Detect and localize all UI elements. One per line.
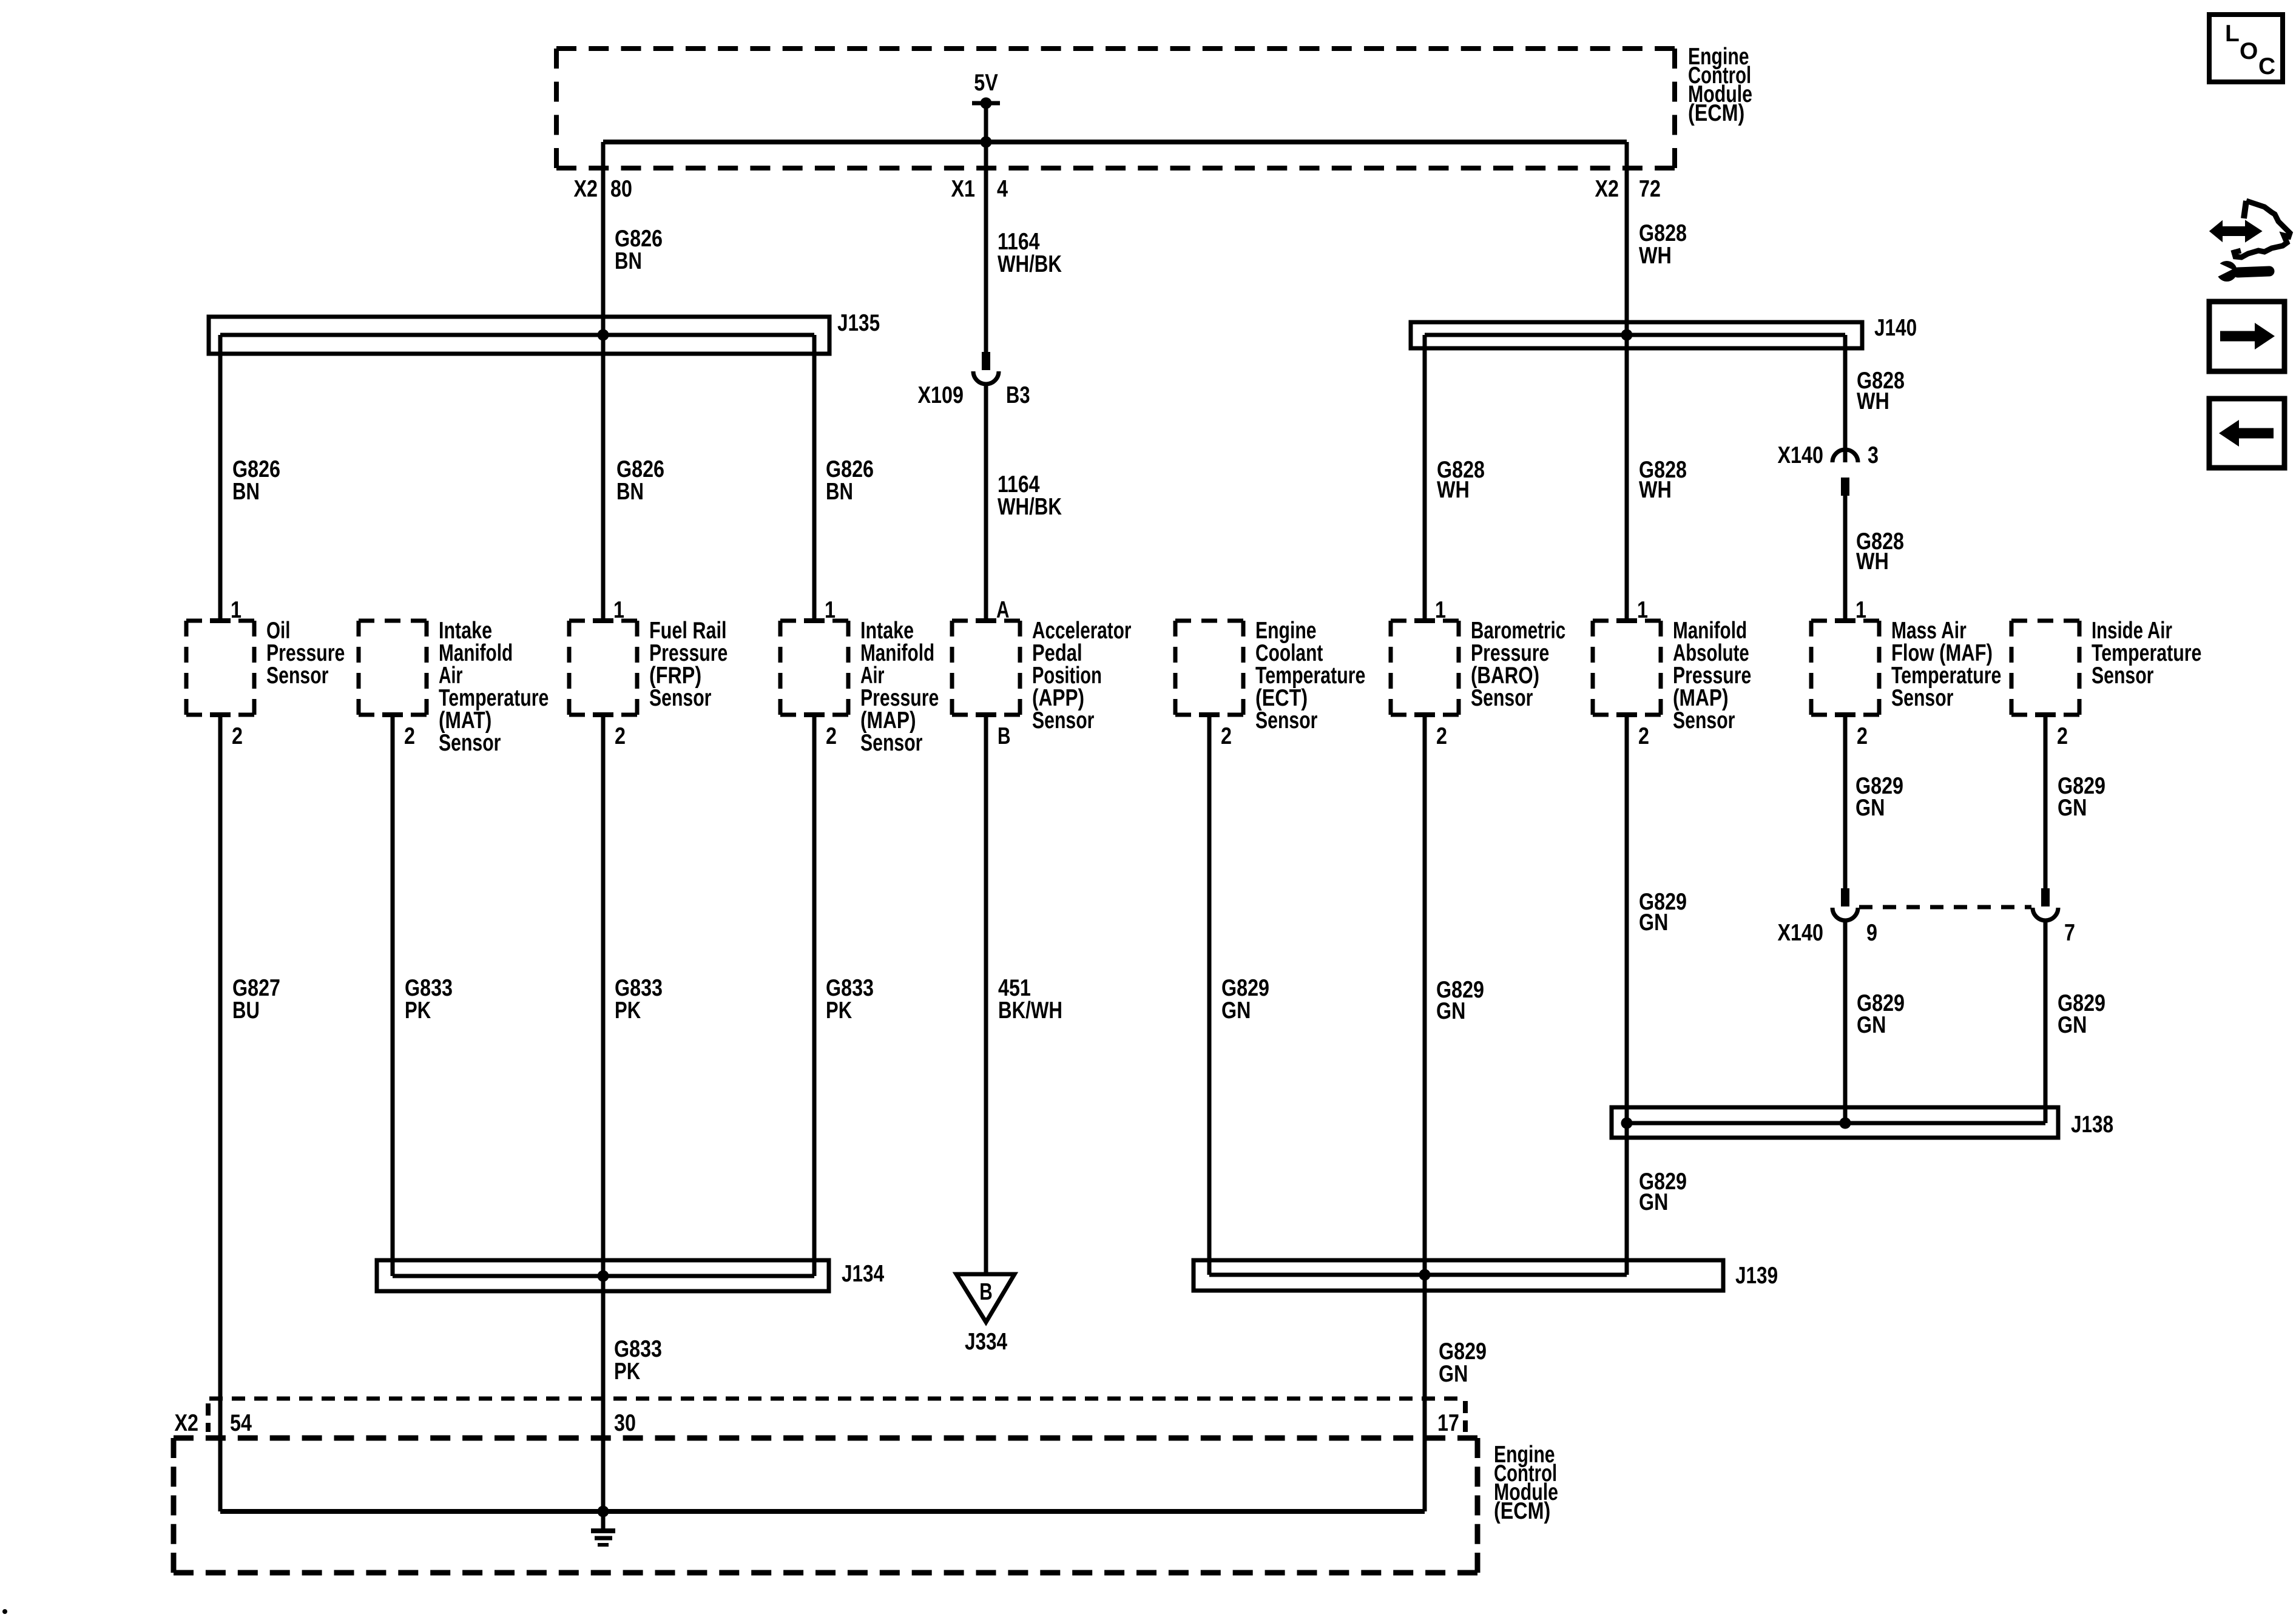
wire: G826 BN from J135 to FRP sensor pin 1 <box>601 335 606 621</box>
wire: G828 WH from J140 to BARO sensor pin 1 <box>1423 335 1427 621</box>
svg-text:Sensor: Sensor <box>649 685 711 711</box>
wire: G829 GN from X140-7 to J138 right end <box>2044 920 2048 1123</box>
svg-text:Sensor: Sensor <box>1255 707 1317 734</box>
wire: G829 GN from inside air temperature sensor pin 2 to X140 pin 7 <box>2044 715 2048 888</box>
svg-text:1: 1 <box>231 597 241 623</box>
module box: Engine Control Module ECM (bottom, dashed) <box>174 1436 1477 1441</box>
node: junction on J139 (BARO through wire) <box>1419 1269 1431 1281</box>
wire: G826 BN from ECM X2-80 to J135 <box>601 142 606 335</box>
wire: G833 PK from intake MAP sensor pin 2 to J134 <box>812 715 817 1276</box>
svg-text:BK/WH: BK/WH <box>998 998 1062 1024</box>
splice junction block J140 <box>1411 315 1917 348</box>
svg-text:9: 9 <box>1866 920 1877 946</box>
svg-text:A: A <box>996 597 1010 623</box>
label: Engine Control Module (ECM) top <box>1688 44 1752 126</box>
svg-text:1: 1 <box>1637 597 1648 623</box>
svg-text:Sensor: Sensor <box>1471 685 1533 711</box>
svg-text:(ECM): (ECM) <box>1688 100 1744 126</box>
svg-text:Sensor: Sensor <box>439 730 501 756</box>
wire: G829 GN from X140-9 to J138 <box>1843 920 1848 1123</box>
sensor: manifold absolute pressure MAP sensor (dashed box) <box>1593 597 1751 749</box>
svg-text:2: 2 <box>1857 723 1868 749</box>
splice junction block J135 <box>209 310 880 354</box>
svg-text:WH/BK: WH/BK <box>998 251 1062 277</box>
svg-text:WH: WH <box>1639 477 1672 503</box>
svg-text:GN: GN <box>1855 795 1885 821</box>
svg-text:B: B <box>998 723 1011 749</box>
node: junction on J138 (MAF wire) <box>1840 1118 1851 1129</box>
svg-text:GN: GN <box>1439 1361 1468 1387</box>
svg-text:Sensor: Sensor <box>2092 663 2153 689</box>
connector face line: ECM X2 (fine dashed) <box>209 1397 1465 1401</box>
pin label: ECM X2 pin 54 <box>175 1410 252 1436</box>
ground symbol: chassis ground below pin 30 <box>591 1511 615 1545</box>
node: G826 junction on J135 <box>598 329 609 341</box>
svg-text:2: 2 <box>1436 723 1447 749</box>
wire: G826 BN from J135 to intake manifold air pressure sensor pin 1 <box>812 335 817 621</box>
svg-text:WH: WH <box>1437 477 1470 503</box>
svg-text:B3: B3 <box>1006 382 1030 408</box>
svg-text:PK: PK <box>826 998 852 1024</box>
svg-text:2: 2 <box>826 723 837 749</box>
svg-text:WH: WH <box>1857 388 1889 414</box>
svg-text:BN: BN <box>232 479 260 505</box>
inline connector X140 terminal 9 <box>1778 888 1878 946</box>
svg-text:X2: X2 <box>175 1410 199 1436</box>
svg-text:O: O <box>2240 38 2258 64</box>
svg-text:GN: GN <box>2058 795 2087 821</box>
svg-text:WH/BK: WH/BK <box>998 494 1062 520</box>
svg-text:2: 2 <box>615 723 626 749</box>
svg-text:1: 1 <box>825 597 836 623</box>
svg-text:GN: GN <box>1857 1012 1886 1038</box>
inline connector X109 terminal B3 <box>918 352 1030 408</box>
connector tick right of pin 17 <box>1463 1401 1468 1432</box>
svg-text:PK: PK <box>405 998 431 1024</box>
svg-text:(ECM): (ECM) <box>1494 1498 1550 1524</box>
wire: G828 WH from X140-3 to MAF temperature sensor pin 1 <box>1843 494 1848 621</box>
sensor: fuel rail pressure FRP sensor (dashed box) <box>569 597 728 749</box>
svg-text:80: 80 <box>610 176 632 202</box>
wire: G828 WH from ECM X2-72 to J140 <box>1625 142 1629 335</box>
stray scan mark bottom left <box>2 1609 7 1614</box>
svg-text:54: 54 <box>230 1410 252 1436</box>
svg-text:PK: PK <box>615 998 641 1024</box>
svg-text:J138: J138 <box>2071 1112 2113 1138</box>
svg-text:GN: GN <box>1639 910 1668 936</box>
wire: 1164 WH/BK from ECM X1-4 down to X109 <box>984 142 988 352</box>
sensor: mass air flow MAF temperature sensor (dashed box) <box>1811 597 2001 749</box>
wire: 5V reference bus inside ECM <box>603 140 1627 144</box>
svg-text:J139: J139 <box>1735 1263 1778 1289</box>
svg-text:2: 2 <box>2057 723 2068 749</box>
svg-text:Sensor: Sensor <box>860 730 922 756</box>
icon: LOC reference box <box>2209 15 2283 82</box>
inline connector X140 terminal 7 <box>2033 888 2075 946</box>
svg-text:B: B <box>979 1279 993 1305</box>
svg-text:1: 1 <box>1855 597 1866 623</box>
node: junction of 5V tap and bus <box>981 137 992 148</box>
module box: Engine Control Module ECM (top, dashed) <box>556 46 1675 51</box>
svg-text:Sensor: Sensor <box>1032 707 1094 734</box>
svg-text:J140: J140 <box>1874 315 1917 341</box>
pin label: ECM connector X2 pin 72 <box>1595 176 1661 202</box>
svg-text:30: 30 <box>614 1410 636 1436</box>
wire: G833 PK from MAT sensor pin 2 to J134 <box>391 715 395 1276</box>
svg-text:GN: GN <box>1221 998 1251 1024</box>
wire: G827 BU from oil pressure sensor pin 2 to ECM X2-54 <box>218 715 223 1511</box>
sensor: inside air temperature sensor (dashed box) <box>2011 618 2201 749</box>
svg-text:2: 2 <box>232 723 243 749</box>
splice junction block J138 <box>1612 1107 2113 1138</box>
node: junction on J138 (MAP through wire) <box>1621 1118 1633 1129</box>
svg-text:BN: BN <box>826 479 853 505</box>
svg-text:GN: GN <box>2058 1012 2087 1038</box>
node: ground junction at pin 30 <box>598 1506 609 1517</box>
wire label: G826 BN (top) <box>615 226 663 274</box>
svg-text:X109: X109 <box>918 382 964 408</box>
ground symbol: J334 triangle B <box>956 1274 1015 1355</box>
wire label: G833 PK above pin 30 <box>614 1336 662 1385</box>
svg-text:5V: 5V <box>974 70 998 96</box>
svg-text:1: 1 <box>613 597 624 623</box>
icon: arrow next (right) <box>2209 302 2284 371</box>
wire label: G828 WH (top) <box>1639 220 1687 269</box>
svg-text:Sensor: Sensor <box>1673 707 1735 734</box>
svg-text:Sensor: Sensor <box>266 663 328 689</box>
svg-text:BU: BU <box>232 998 260 1024</box>
svg-text:17: 17 <box>1437 1410 1459 1436</box>
wire: G828 WH from J140 right end to X140 pin 3 <box>1843 335 1848 462</box>
svg-text:3: 3 <box>1868 442 1879 468</box>
wire: 451 BK/WH from APP sensor pin B to ground J334 <box>984 715 988 1274</box>
svg-text:4: 4 <box>997 176 1008 202</box>
svg-text:WH: WH <box>1639 243 1672 269</box>
sensor: barometric pressure BARO sensor (dashed box) <box>1391 597 1565 749</box>
icon: arrow previous (left) <box>2209 399 2284 468</box>
splice junction block J139 <box>1194 1260 1778 1291</box>
svg-text:Sensor: Sensor <box>1891 685 1953 711</box>
svg-text:72: 72 <box>1639 176 1661 202</box>
svg-text:X2: X2 <box>1595 176 1619 202</box>
wire label: 1164 WH/BK (upper) <box>998 229 1062 277</box>
svg-text:C: C <box>2258 53 2275 79</box>
svg-text:J334: J334 <box>965 1329 1007 1355</box>
svg-text:X140: X140 <box>1778 442 1824 468</box>
svg-text:J135: J135 <box>837 310 880 336</box>
pin label: ECM connector X1 pin 4 <box>951 176 1008 202</box>
wire label: G829 GN above ECM pin 17 <box>1439 1338 1487 1387</box>
svg-text:GN: GN <box>1436 998 1465 1024</box>
svg-text:1: 1 <box>1435 597 1446 623</box>
svg-text:BN: BN <box>616 479 644 505</box>
wire: 1164 WH/BK from X109 to APP sensor pin A <box>984 384 988 621</box>
inline connector X140 terminal 3 <box>1778 442 1879 496</box>
wire: G829 GN from MAP sensor pin 2 through J138 to J139 <box>1625 715 1629 1275</box>
svg-text:L: L <box>2225 21 2240 47</box>
svg-text:7: 7 <box>2064 920 2075 946</box>
wire: G829 GN from BARO sensor pin 2 through J139 to ECM pin 17 <box>1423 715 1427 1511</box>
sensor: engine coolant temperature ECT sensor (dashed box) <box>1175 618 1365 749</box>
svg-text:GN: GN <box>1639 1189 1668 1215</box>
svg-text:2: 2 <box>1221 723 1232 749</box>
sensor: accelerator pedal position APP sensor (dashed box) <box>952 597 1131 749</box>
svg-text:X1: X1 <box>951 176 976 202</box>
label: Engine Control Module (ECM) bottom <box>1494 1442 1558 1524</box>
wire: G833 PK from FRP sensor pin 2 through J134 to ECM pin 30 ground <box>601 715 606 1511</box>
svg-text:X2: X2 <box>574 176 598 202</box>
wire: 5V tap to bus <box>984 103 988 142</box>
power tap: 5V supply <box>972 70 1000 109</box>
wire: G826 BN from J135 to oil pressure sensor pin 1 <box>218 335 223 621</box>
wire: G829 GN from MAF sensor pin 2 to X140 pin 9 <box>1843 715 1848 888</box>
splice junction block J134 <box>377 1260 884 1291</box>
connector X140 association line (dashed) <box>1859 905 2031 910</box>
wire label: G829 GN between J138 and J139 <box>1639 1169 1687 1215</box>
connector tick left of pin 54 <box>206 1403 211 1432</box>
sensor: intake manifold air temperature MAT sensor (dashed box) <box>359 618 549 756</box>
node: junction on J134 (FRP through wire) <box>598 1271 609 1282</box>
svg-text:BN: BN <box>615 248 642 274</box>
node: G828 junction on J140 <box>1621 329 1633 341</box>
svg-text:PK: PK <box>614 1359 640 1385</box>
sensor: intake manifold air pressure MAP sensor (dashed box) <box>780 597 939 756</box>
wire: internal ground bus inside ECM <box>220 1509 1425 1514</box>
svg-text:2: 2 <box>404 723 415 749</box>
svg-text:2: 2 <box>1638 723 1649 749</box>
wire label: 1164 WH/BK (lower) <box>998 471 1062 520</box>
sensor: oil pressure sensor (dashed box) <box>186 597 345 749</box>
icon: diagnostic tool (double arrow, connector outline, wrench) <box>2211 201 2290 282</box>
wire: G829 GN from ECT sensor pin 2 to J139 <box>1207 715 1212 1275</box>
wire: G828 WH from J140 to MAP sensor pin 1 <box>1625 335 1629 621</box>
svg-text:X140: X140 <box>1778 920 1824 946</box>
pin label: ECM connector X2 pin 80 <box>574 176 632 202</box>
svg-text:J134: J134 <box>842 1261 884 1287</box>
svg-text:WH: WH <box>1856 549 1889 575</box>
